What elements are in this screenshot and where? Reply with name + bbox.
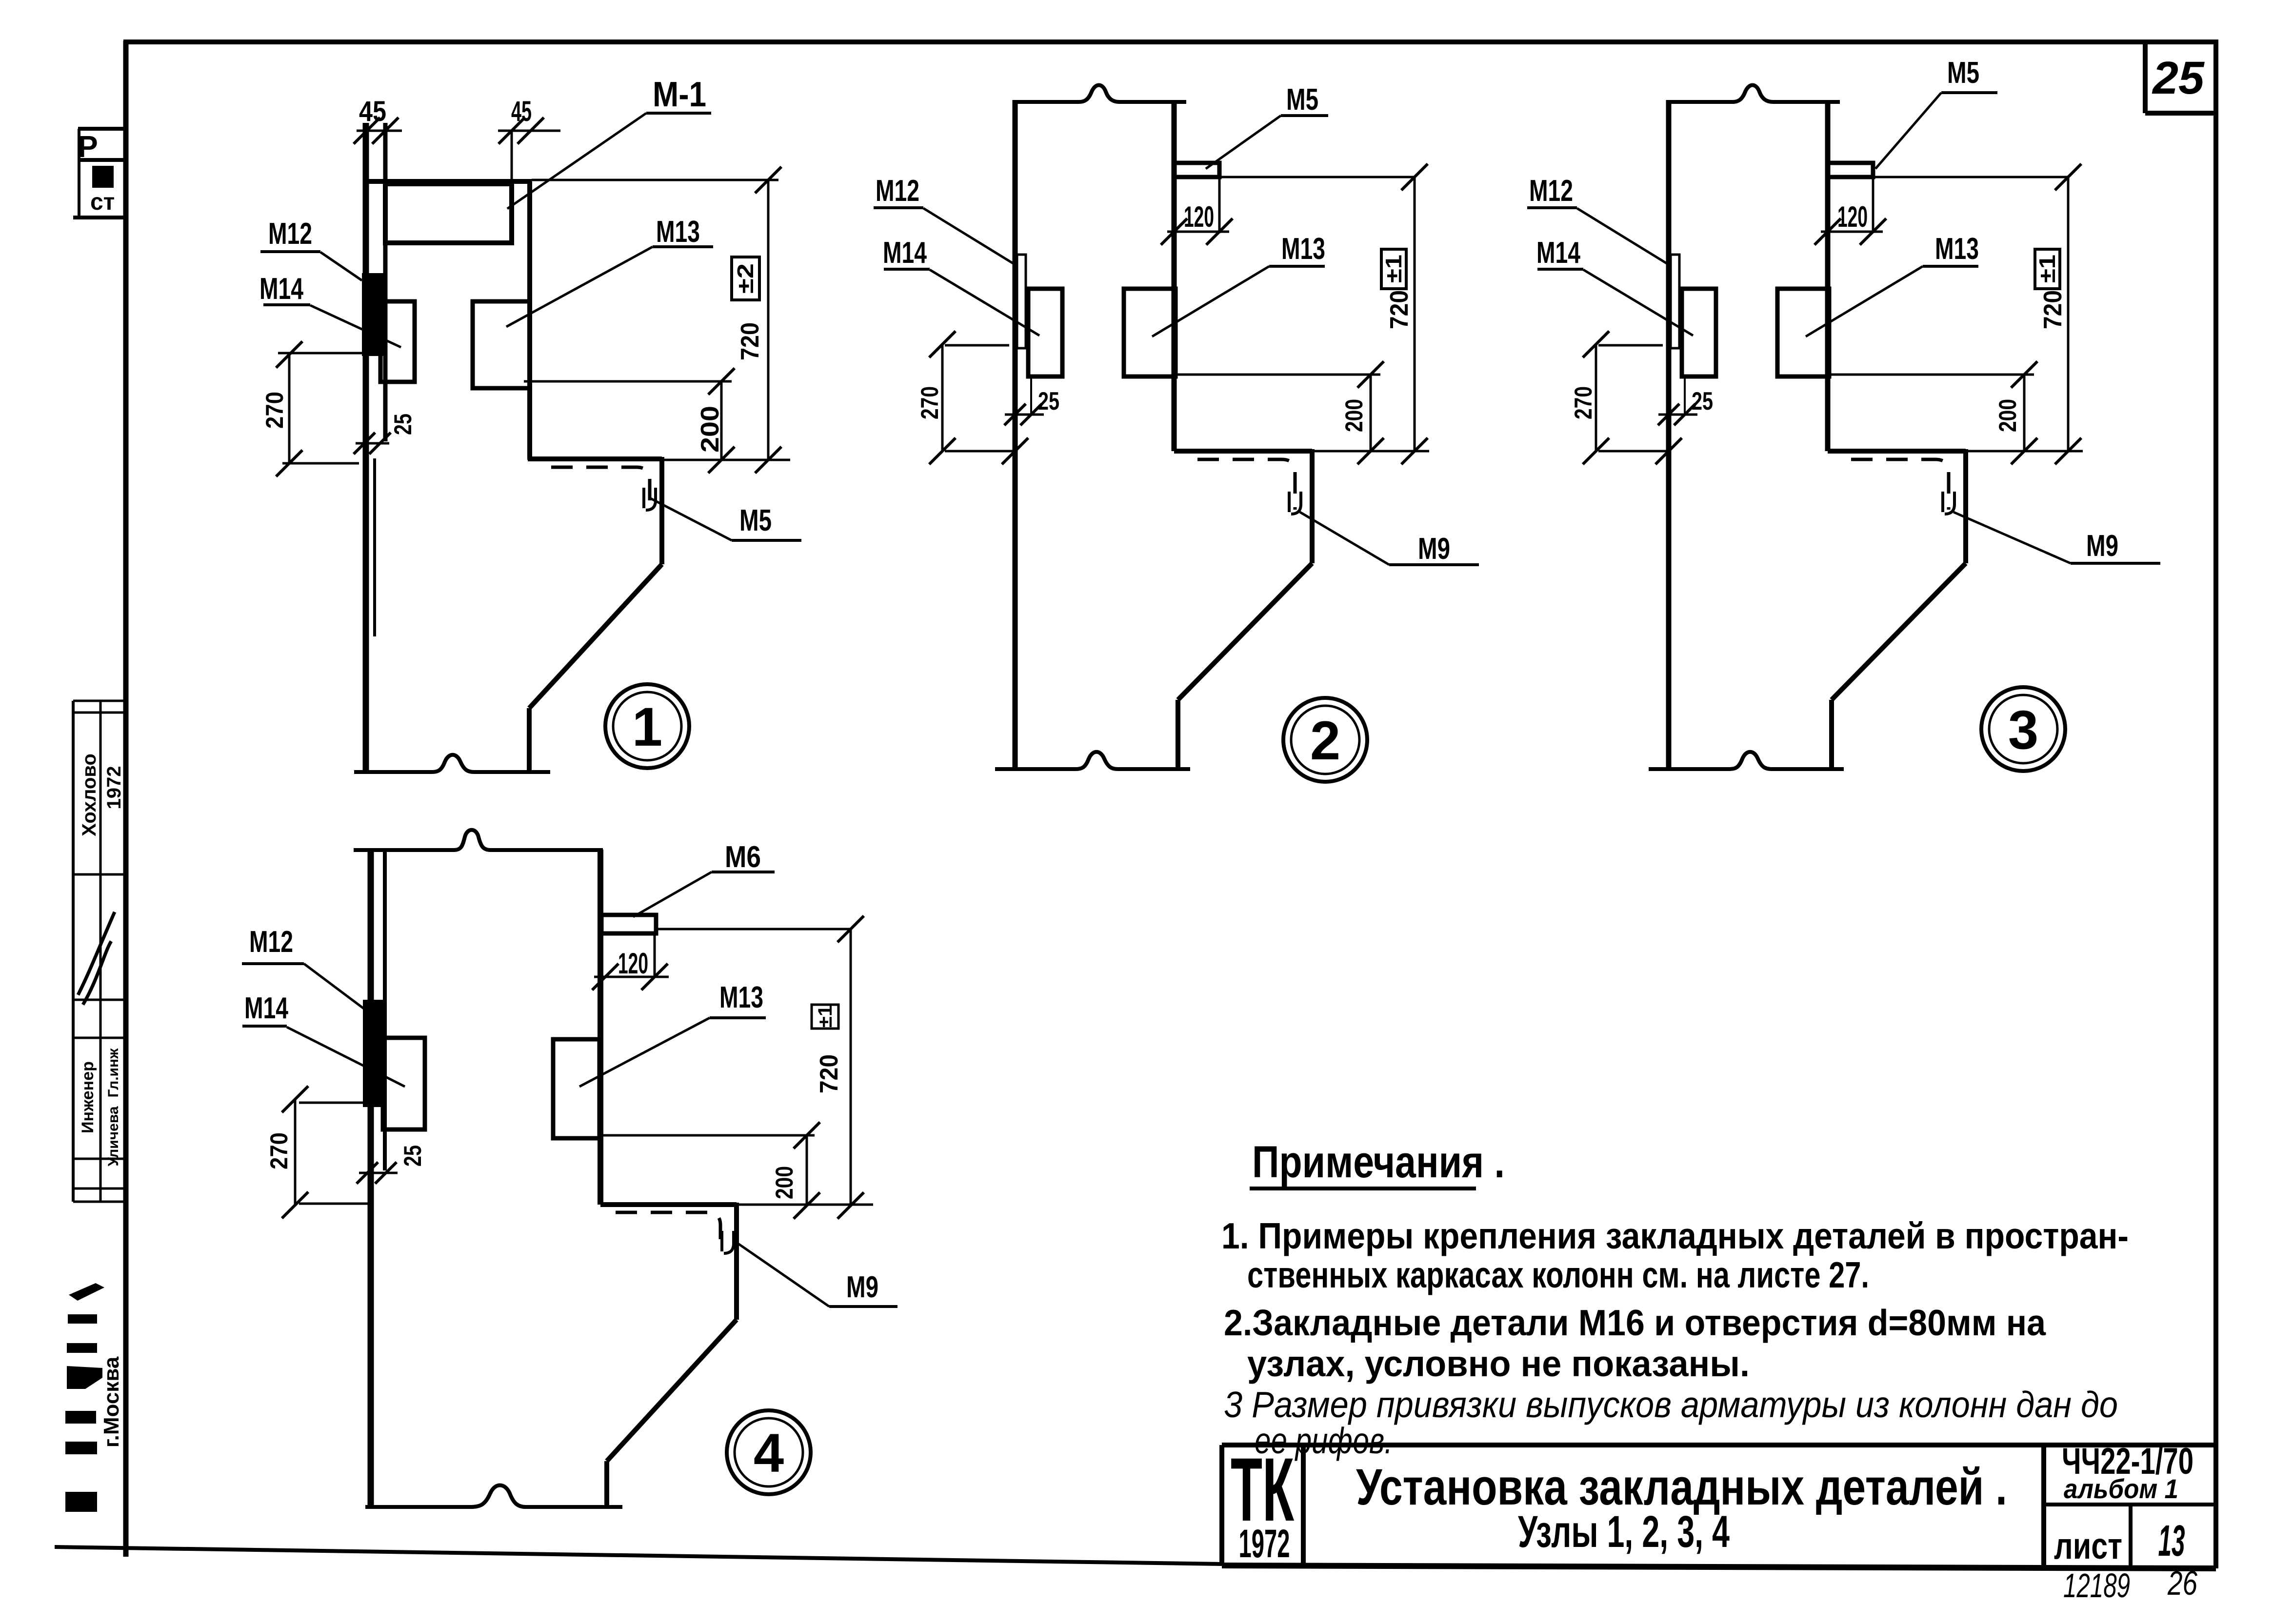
svg-text:М14: М14	[259, 272, 303, 306]
subtitle text	[1518, 1507, 1730, 1557]
node4 plate M14	[383, 1038, 425, 1129]
svg-text:М13: М13	[656, 215, 700, 249]
node2 corbel diagonal	[1178, 563, 1312, 700]
svg-text:200: 200	[696, 406, 724, 453]
node2 corbel right edge	[1310, 449, 1315, 563]
svg-text:270: 270	[261, 392, 288, 429]
svg-text:М14: М14	[244, 991, 288, 1025]
node1 plate M12 (blob)	[362, 273, 385, 356]
node1 dim 270	[261, 341, 362, 476]
node3 label M9	[1954, 512, 2160, 563]
node1 tolerance box +-2	[732, 257, 759, 300]
node3 plate M12	[1671, 255, 1679, 348]
svg-text:2.Закладные детали М16 и отв: 2.Закладные детали М16 и отверстия d=80м…	[1224, 1302, 2046, 1343]
node3 column left edge	[1666, 100, 1672, 769]
note 2 line 1	[1224, 1302, 2046, 1343]
node2 dim 270	[916, 331, 1028, 464]
node2 column left edge	[1013, 100, 1018, 769]
node4 dim 270	[265, 1086, 369, 1218]
node4 anchor hook M9	[722, 1231, 734, 1253]
svg-text:120: 120	[1837, 200, 1868, 233]
node4 top break line	[354, 830, 603, 850]
svg-text:±2: ±2	[733, 263, 758, 294]
handwritten archive numbers	[2063, 1564, 2197, 1604]
node3 label M5	[1875, 56, 1997, 169]
svg-text:3 Размер привязки выпусков арм: 3 Размер привязки выпусков арматуры из к…	[1224, 1384, 2118, 1425]
node1 label M12	[260, 217, 362, 280]
node4 dim 120	[592, 933, 669, 990]
node3 label M13	[1806, 232, 1979, 337]
svg-text:М14: М14	[1536, 236, 1580, 270]
svg-text:М13: М13	[719, 981, 763, 1014]
node1 rebar line lower	[373, 458, 376, 636]
node2 plate M12	[1017, 255, 1026, 348]
node2 plate M14	[1028, 289, 1062, 376]
node balloon 4	[727, 1410, 811, 1494]
node1 column left edge	[363, 123, 369, 772]
node4 label M9	[735, 1241, 897, 1307]
node4 plate M12 (blob)	[363, 1000, 384, 1107]
svg-text:±1: ±1	[1381, 255, 1406, 283]
node4 hidden outline (dashed)	[616, 1212, 720, 1248]
node3 tolerance box +-1	[2034, 249, 2060, 289]
node balloon 2	[1283, 698, 1367, 782]
sheet frame right edge	[2213, 41, 2218, 1568]
svg-text:М6: М6	[725, 840, 761, 874]
svg-text:альбом 1: альбом 1	[2064, 1473, 2178, 1504]
node2 top break line	[1015, 85, 1186, 102]
svg-text:25: 25	[2152, 52, 2205, 104]
node2 label M14	[883, 236, 1039, 336]
svg-text:М5: М5	[1947, 56, 1979, 90]
svg-text:Уличева: Уличева	[105, 1106, 121, 1166]
node2 column lower right edge	[1176, 700, 1180, 769]
node1 label M-1	[507, 75, 711, 209]
node1 dim 200	[524, 368, 735, 473]
node2 dim 25	[1004, 376, 1059, 425]
svg-text:720: 720	[815, 1054, 843, 1093]
node1 column top face	[363, 179, 532, 184]
svg-text:узлах, условно не показаны.: узлах, условно не показаны.	[1247, 1343, 1750, 1384]
node2 column right edge upper	[1172, 102, 1177, 451]
notes heading	[1250, 1137, 1505, 1188]
node2 dim 200	[1176, 361, 1384, 464]
sheet frame top edge	[123, 40, 2218, 44]
svg-text:М9: М9	[1418, 532, 1450, 566]
node4 corbel right edge	[734, 1203, 739, 1320]
node2 label M12	[874, 174, 1017, 266]
svg-text:Хохлово: Хохлово	[79, 753, 100, 836]
svg-text:45: 45	[359, 96, 386, 127]
svg-text:45: 45	[511, 96, 532, 127]
node3 plate M14	[1682, 289, 1716, 376]
node4 dim 200	[599, 1122, 820, 1219]
node3 hidden outline (dashed)	[1851, 459, 1949, 510]
svg-text:270: 270	[1570, 386, 1597, 419]
node1 label M14	[259, 272, 401, 347]
svg-text:М9: М9	[846, 1270, 878, 1304]
node3 anchor hook M9	[1943, 492, 1954, 514]
svg-text:1972: 1972	[1239, 1522, 1290, 1566]
svg-text:Р: Р	[78, 130, 98, 164]
node3 corbel right edge	[1963, 449, 1968, 563]
title text	[1356, 1459, 2007, 1516]
svg-text:1: 1	[632, 696, 662, 757]
node3 base break line	[1649, 752, 1844, 769]
svg-text:270: 270	[265, 1132, 293, 1169]
svg-text:25: 25	[389, 414, 417, 435]
node1 corbel ledge	[528, 456, 662, 461]
svg-text:М12: М12	[1529, 174, 1573, 208]
node2 label M5	[1206, 83, 1328, 169]
node4 column right edge upper	[598, 850, 603, 1205]
node1 dim 45 left	[354, 96, 402, 144]
node2 plate M13	[1124, 289, 1176, 376]
note 2 line 2	[1247, 1343, 1750, 1384]
top margin stamp	[73, 129, 124, 218]
svg-text:ственных каркасах колонн см: ственных каркасах колонн см. на листе 27…	[1247, 1254, 1869, 1295]
node4 label M13	[579, 981, 766, 1087]
svg-text:М13: М13	[1935, 232, 1979, 266]
svg-text:720: 720	[2039, 290, 2067, 329]
node1 column lower right edge	[527, 708, 532, 772]
svg-text:4: 4	[754, 1423, 784, 1484]
node2 dim 120	[1161, 177, 1233, 245]
svg-text:М-1: М-1	[653, 75, 706, 114]
svg-text:200: 200	[1340, 399, 1368, 432]
svg-text:М12: М12	[268, 217, 312, 251]
node4 plate M13	[553, 1039, 599, 1138]
svg-text:120: 120	[618, 947, 648, 980]
svg-text:1972: 1972	[103, 766, 125, 810]
svg-text:Инженер: Инженер	[79, 1061, 97, 1133]
svg-text:26: 26	[2167, 1564, 2197, 1602]
node4 plate M6	[601, 915, 656, 933]
node1 label M13	[506, 215, 713, 327]
node1 base break line	[354, 755, 550, 772]
svg-text:3: 3	[2008, 699, 2038, 760]
node4 corbel ledge	[600, 1202, 873, 1207]
node4 corbel diagonal	[607, 1320, 737, 1461]
svg-text:лист: лист	[2054, 1525, 2122, 1567]
svg-text:25: 25	[399, 1145, 426, 1167]
node3 dim 200	[1829, 361, 2037, 464]
node4 base break line	[365, 1485, 622, 1507]
node1 anchor hook M5	[644, 488, 656, 510]
node1 column right edge upper	[527, 181, 532, 460]
node2 anchor hook M9	[1289, 492, 1301, 514]
node3 column lower right edge	[1829, 700, 1834, 769]
node2 plate M5 top	[1175, 163, 1219, 177]
middle margin stamp (approval table)	[73, 701, 126, 1202]
node1 ledge dim line	[662, 447, 790, 473]
node1 corbel diagonal	[529, 564, 662, 708]
node2 label M13	[1152, 232, 1325, 337]
svg-text:±1: ±1	[2034, 255, 2060, 283]
node3 plate M13	[1777, 289, 1829, 376]
svg-text:М12: М12	[249, 925, 293, 959]
node2 hidden outline (dashed)	[1197, 459, 1295, 510]
node2 dim 720	[1219, 164, 1428, 464]
svg-text:720: 720	[736, 322, 764, 360]
note 3 line 2	[1255, 1420, 1393, 1461]
svg-text:25: 25	[1692, 387, 1713, 416]
node3 dim 720	[1873, 164, 2081, 464]
node1 hidden outline (dashed)	[551, 467, 650, 507]
node3 column right edge upper	[1825, 102, 1831, 451]
node1 dim 45 right	[498, 96, 560, 181]
node balloon 3	[1981, 687, 2065, 771]
series box	[2044, 1441, 2193, 1565]
node3 corbel ledge	[1828, 449, 2083, 454]
svg-text:25: 25	[1038, 387, 1059, 416]
node3 dim 25	[1658, 376, 1713, 425]
node4 column left edge	[368, 850, 374, 1507]
node3 corbel diagonal	[1832, 563, 1966, 700]
svg-text:12189: 12189	[2063, 1566, 2130, 1604]
node3 dim 120	[1814, 177, 1886, 245]
svg-text:М14: М14	[883, 236, 927, 270]
node4 column lower right edge	[604, 1461, 609, 1507]
node4 tolerance box +-1	[812, 1005, 838, 1029]
node1 label M5	[649, 497, 801, 540]
svg-text:720: 720	[1385, 290, 1414, 329]
svg-text:1. Примеры крепления закладн: 1. Примеры крепления закладных деталей в…	[1221, 1215, 2129, 1256]
svg-text:2: 2	[1310, 710, 1340, 771]
node4 rebar line (M12 plane)	[383, 850, 387, 1170]
node2 corbel ledge	[1174, 449, 1429, 454]
node1 plate M13	[473, 301, 530, 388]
svg-text:270: 270	[916, 386, 943, 419]
node2 label M9	[1300, 512, 1479, 566]
note 1 line 1	[1221, 1215, 2129, 1256]
sheet frame bottom edge	[55, 1547, 1222, 1564]
node1 rebar line upper (M12 plane)	[383, 123, 388, 441]
node3 label M12	[1527, 174, 1671, 266]
node4 dim 720	[658, 916, 864, 1219]
node3 label M14	[1536, 236, 1693, 336]
node1 dim 25	[354, 414, 417, 454]
node2 base break line	[995, 752, 1190, 769]
node1 dim 720	[532, 167, 781, 460]
node3 top break line	[1669, 85, 1840, 102]
sheet row	[2044, 1505, 2216, 1567]
node balloon 1	[605, 684, 689, 768]
bottom margin logo stamp	[65, 1283, 123, 1512]
svg-text:М9: М9	[2086, 529, 2118, 563]
svg-text:М5: М5	[739, 504, 772, 537]
node1 channel M-1	[385, 184, 512, 243]
note 1 line 2	[1247, 1254, 1869, 1295]
svg-text:Узлы 1, 2, 3, 4: Узлы 1, 2, 3, 4	[1518, 1507, 1730, 1557]
node1 corbel right edge	[659, 457, 664, 564]
TK logo box	[1231, 1440, 1303, 1566]
node4 label M12	[242, 925, 368, 1012]
node1 plate M14	[380, 301, 415, 382]
svg-text:М5: М5	[1286, 83, 1318, 117]
node3 dim 270	[1570, 331, 1682, 464]
svg-text:Примечания .: Примечания .	[1252, 1137, 1505, 1187]
sheet frame left edge	[123, 41, 129, 1557]
svg-text:±1: ±1	[815, 1005, 836, 1028]
node3 plate M5 top	[1828, 163, 1873, 177]
svg-text:200: 200	[771, 1166, 798, 1199]
note 3 line 1	[1224, 1384, 2118, 1425]
svg-text:М12: М12	[876, 174, 919, 208]
svg-text:13: 13	[2158, 1517, 2185, 1565]
svg-text:200: 200	[1994, 399, 2021, 432]
svg-text:Гл.инж: Гл.инж	[105, 1048, 121, 1097]
svg-text:ст: ст	[90, 189, 115, 215]
svg-text:г.Москва: г.Москва	[100, 1356, 123, 1447]
page number box 25	[2145, 42, 2216, 113]
node2 tolerance box +-1	[1381, 249, 1406, 289]
title block outline	[1222, 1445, 2216, 1568]
node4 dim 25	[357, 1129, 426, 1184]
node4 label M6	[633, 840, 775, 917]
svg-text:120: 120	[1184, 200, 1214, 233]
node4 label M14	[242, 991, 405, 1087]
svg-text:М13: М13	[1281, 232, 1325, 266]
